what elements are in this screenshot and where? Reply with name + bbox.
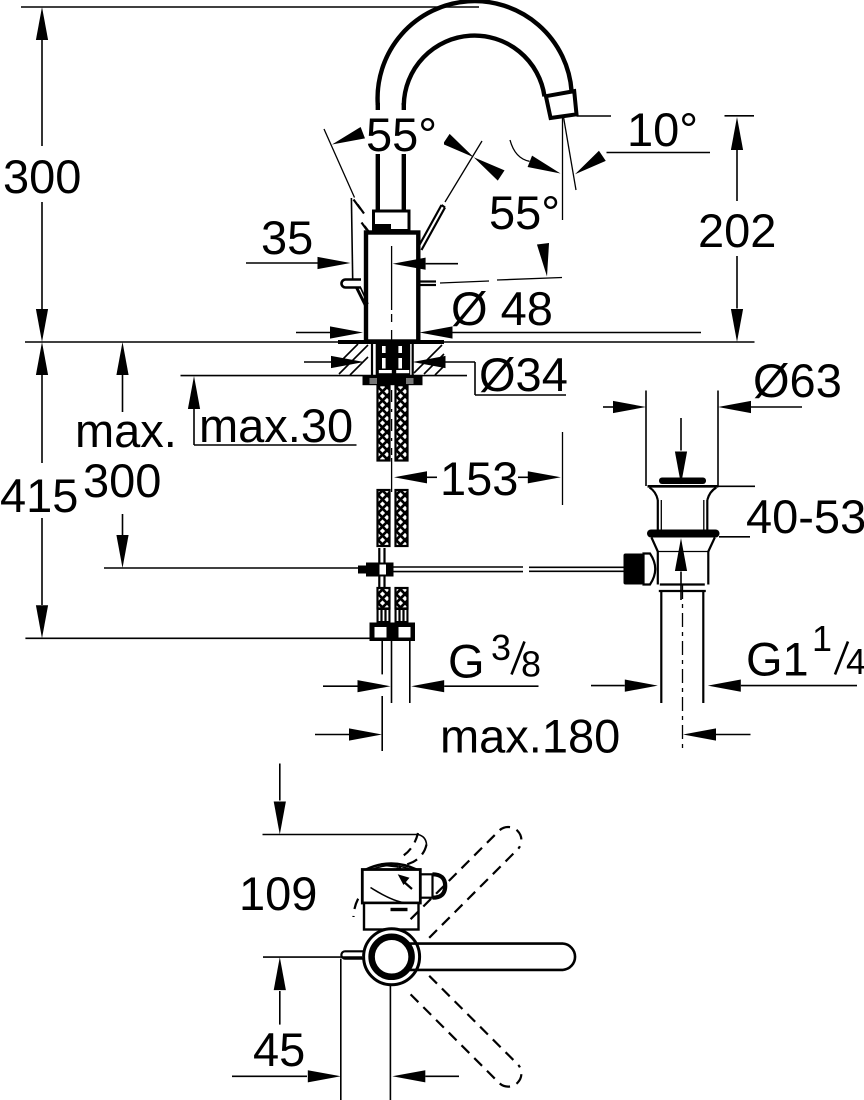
pull rod cross fitting (358, 566, 366, 574)
plan middle body (364, 903, 419, 930)
wire plan top extension line (263, 834, 419, 836)
plan dashed lever down (411, 976, 522, 1087)
pop-up pull rod (379, 548, 384, 588)
lever handle left (front view) (342, 198, 370, 307)
svg-text:max.30: max.30 (199, 399, 353, 452)
svg-text:1: 1 (812, 618, 832, 659)
svg-text:max.180: max.180 (440, 710, 620, 763)
spout arc (gooseneck) (378, 1, 572, 105)
supply pipes below nuts (391, 641, 393, 703)
svg-text:Ø 48: Ø 48 (451, 282, 553, 335)
node deck hole edges (371, 343, 373, 375)
plan dashed lever up (411, 827, 522, 938)
svg-text:G: G (448, 635, 485, 688)
dimension 202 (outlet height) (698, 116, 776, 342)
dimension 40-53 (675, 418, 864, 600)
dimension 10 deg (outlet angle) (572, 103, 710, 179)
dimension D63 (waste flange) (603, 354, 842, 486)
svg-text:45: 45 (253, 1023, 305, 1076)
dimension 153 (outlet projection) (394, 452, 561, 505)
hose ferrules (377, 609, 409, 623)
svg-text:Ø63: Ø63 (753, 354, 842, 407)
node counter line (25, 341, 755, 343)
svg-text:202: 202 (698, 204, 776, 257)
svg-text:10°: 10° (627, 103, 698, 156)
plan interior arc (371, 888, 404, 903)
svg-text:300: 300 (3, 150, 81, 203)
dimension max.180 (315, 710, 751, 763)
dimension max.30 (deck thickness) (181, 376, 468, 452)
svg-text:8: 8 (521, 644, 541, 685)
svg-text:55°: 55° (366, 108, 437, 161)
node rod axis extension (381, 641, 383, 674)
svg-text:4: 4 (846, 641, 864, 682)
dimension D48 (body diameter) (296, 282, 701, 339)
svg-text:max.: max. (75, 404, 177, 457)
dimension 55 deg left (lever swing) (324, 108, 444, 198)
svg-text:3: 3 (491, 627, 511, 668)
svg-text:415: 415 (0, 469, 78, 522)
dimension 45 (232, 959, 459, 1100)
svg-text:300: 300 (83, 454, 161, 507)
horizontal pop-up rod (394, 567, 627, 572)
plan solid lever (407, 944, 575, 970)
svg-text:109: 109 (239, 867, 317, 920)
flexible hoses (braided) (378, 385, 408, 608)
wire dash-dot leader to outlet axis (421, 243, 563, 285)
spout outline from above (dashed) (354, 845, 427, 918)
svg-text:153: 153 (440, 452, 518, 505)
aerator at spout end (546, 91, 577, 118)
dimension G1 1/4 (591, 618, 864, 692)
dimension 300 (height above counter) (3, 7, 81, 342)
dimension 415 (0, 342, 370, 638)
plan upper body (362, 870, 420, 904)
dimension 109 (239, 764, 362, 1025)
svg-text:G1: G1 (746, 633, 809, 686)
wire top extension line (spout top level) (21, 6, 479, 8)
svg-text:35: 35 (261, 211, 313, 264)
node hose centerline (391, 390, 393, 455)
plan front tab (341, 951, 363, 958)
node tilted water stream line (564, 117, 577, 190)
dimension 55 deg right (spout swivel) (489, 140, 563, 239)
dimension 55 deg lever (right extension and bowtie arrows) (443, 134, 505, 202)
deck hatching (339, 344, 445, 375)
spout riser (376, 103, 380, 211)
plan body cap (366, 864, 417, 870)
plan handle connector cylinder (398, 874, 446, 897)
node vertical reference line at outlet (562, 117, 564, 220)
pop-up waste plug (624, 478, 720, 752)
svg-text:Ø34: Ø34 (479, 348, 568, 401)
faucet body (366, 233, 418, 342)
dimension D34 (hole diameter) (304, 348, 568, 401)
plan hub circles (364, 929, 420, 985)
lever handle raised (right) (418, 205, 442, 248)
dimension max.300 (75, 342, 358, 568)
dimension 35 (lever reach) (246, 211, 458, 270)
node body centerline (391, 246, 393, 310)
mounting washer (363, 376, 423, 385)
connection nuts G3/8 (370, 623, 416, 642)
dimension G3/8 (323, 627, 541, 692)
svg-text:40-53: 40-53 (746, 490, 864, 543)
collar below riser (374, 211, 410, 231)
svg-text:55°: 55° (489, 186, 560, 239)
threaded shank (black) (376, 342, 411, 376)
